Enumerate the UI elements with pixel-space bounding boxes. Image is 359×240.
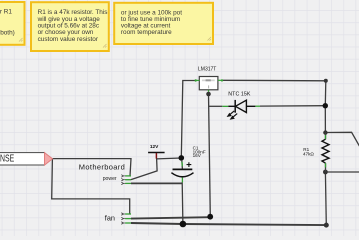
wire LM317 ADJ vertical bbox=[209, 94, 211, 217]
svg-text:LM317T: LM317T bbox=[198, 66, 216, 72]
capacitor C1 100nF bbox=[171, 146, 205, 183]
svg-text:NTC 15K: NTC 15K bbox=[228, 91, 251, 97]
svg-text:power: power bbox=[103, 176, 117, 182]
power supply 12V bbox=[148, 144, 165, 158]
resistor R1 47k bbox=[303, 133, 329, 172]
svg-text:Motherboard: Motherboard bbox=[79, 162, 125, 171]
node ADJ fan junction bbox=[207, 214, 213, 220]
node ADJ junction below LM317 bbox=[206, 92, 211, 97]
wire ADJ branch to NTC left bbox=[209, 105, 223, 107]
svg-text:r R1: r R1 bbox=[0, 8, 12, 15]
wire R1 bottom node to right edge bbox=[325, 171, 359, 173]
net label SENSE bbox=[0, 153, 53, 166]
note sticky 2 bbox=[31, 2, 109, 51]
wire R1 top node to right edge diagonal bbox=[325, 132, 359, 148]
wire SENSE to fan pin1 bbox=[52, 159, 130, 214]
svg-text:room temperature: room temperature bbox=[121, 29, 172, 36]
svg-text:12V: 12V bbox=[150, 144, 159, 150]
node ground bus capacitor bbox=[180, 221, 187, 228]
node ground bus right bbox=[324, 223, 329, 228]
node OUT corner bbox=[324, 79, 328, 83]
wire fan pin3 ground bus bbox=[131, 223, 326, 225]
wire LM317 output to right column bbox=[223, 80, 326, 132]
svg-text:16V: 16V bbox=[193, 153, 202, 158]
svg-text:both): both) bbox=[0, 29, 15, 36]
wire NTC right to OUT node bbox=[260, 105, 325, 107]
wire R1 bottom to ground bus bbox=[324, 172, 327, 225]
connector power pin3 bbox=[121, 182, 131, 185]
svg-text:47kΩ: 47kΩ bbox=[303, 152, 314, 157]
note sticky 3 bbox=[114, 3, 213, 44]
connector power pin1 bbox=[121, 175, 131, 178]
wire SENSE to power pin1 bbox=[52, 159, 131, 176]
wire capacitor bottom down to ground bus bbox=[181, 182, 184, 224]
svg-text:custom value resistor: custom value resistor bbox=[38, 36, 99, 43]
connector fan pin1 bbox=[121, 213, 131, 216]
node R1 bottom bbox=[323, 170, 328, 175]
wire power pin3 to capacitor bottom bbox=[131, 182, 182, 184]
thermistor NTC 15K bbox=[222, 91, 260, 119]
node R1 top bbox=[323, 130, 327, 134]
wire fan pin2 to ADJ node bbox=[131, 217, 210, 218]
node NTC right junction bbox=[323, 103, 328, 108]
note sticky 1 bbox=[0, 2, 25, 45]
svg-text:fan: fan bbox=[105, 214, 115, 223]
connector fan pin2 bbox=[121, 217, 131, 220]
svg-text:SENSE: SENSE bbox=[0, 154, 14, 165]
voltage regulator U1 LM317T bbox=[195, 66, 224, 92]
connector power pin2 bbox=[121, 178, 131, 181]
connector fan pin3 bbox=[121, 222, 131, 225]
wire 12V to power pin2 bbox=[131, 158, 157, 179]
wire 12V symbol to node bbox=[157, 157, 182, 160]
node 12V capacitor junction bbox=[179, 155, 185, 161]
wire LM317 input to 12V node bbox=[181, 81, 195, 158]
